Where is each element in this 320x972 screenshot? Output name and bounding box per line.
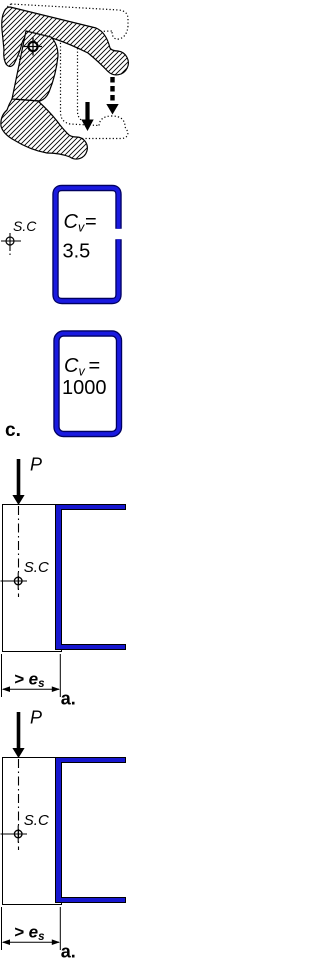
- svg-text:c.: c.: [5, 420, 21, 441]
- dotted original top flange: [11, 4, 128, 26]
- dotted original flange underside: [46, 31, 112, 33]
- solid load arrow: [81, 102, 93, 131]
- crosshair (rotation center): [24, 38, 42, 56]
- dotted original web right edge: [78, 38, 89, 123]
- svg-text:Cv=: Cv=: [64, 355, 100, 379]
- dotted original bottom flange underside: [58, 127, 128, 139]
- svg-text:3.5: 3.5: [63, 241, 91, 263]
- svg-text:Cv=: Cv=: [64, 211, 97, 235]
- dotted arc left: [17, 49, 20, 72]
- closed tube outline: [57, 334, 120, 435]
- shear center mark: [1, 233, 21, 255]
- slit tube outline: [56, 188, 119, 301]
- svg-text:S.C: S.C: [13, 218, 37, 234]
- hatched twisted web: [12, 31, 58, 101]
- dotted original flange right bulb: [112, 26, 128, 39]
- dotted original bottom flange bulb hump: [99, 116, 125, 126]
- hatched twisted bottom flange: [1, 99, 87, 159]
- dotted original web left edge: [61, 36, 100, 126]
- dashed shear-center arrow: [106, 77, 118, 115]
- svg-text:1000: 1000: [62, 377, 107, 399]
- hatched twisted top flange: [2, 7, 129, 75]
